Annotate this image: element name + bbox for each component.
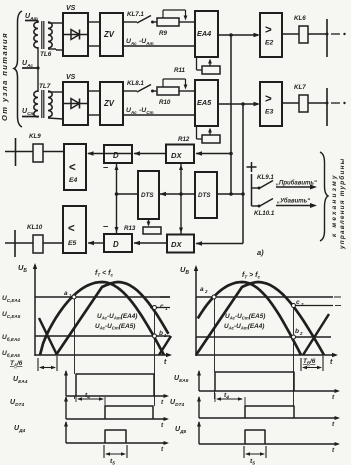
svg-text:TL6: TL6 bbox=[40, 51, 52, 58]
svg-text:KL10.1: KL10.1 bbox=[254, 210, 275, 217]
svg-text:KL10: KL10 bbox=[27, 224, 43, 231]
svg-text:UEA5: UEA5 bbox=[174, 375, 189, 384]
svg-text:KL9.1: KL9.1 bbox=[257, 174, 274, 181]
svg-text:DX: DX bbox=[171, 240, 182, 249]
svg-text:KL7.1: KL7.1 bbox=[127, 11, 144, 18]
svg-text:a: a bbox=[64, 290, 68, 297]
svg-text:t: t bbox=[332, 394, 335, 401]
svg-text:UАс: UАс bbox=[126, 38, 137, 46]
svg-text:к механизму: к механизму bbox=[331, 173, 338, 237]
svg-text:a: a bbox=[200, 286, 204, 293]
svg-text:UД4: UД4 bbox=[14, 425, 26, 434]
svg-text:R9: R9 bbox=[159, 30, 167, 37]
svg-text:UEA4: UEA4 bbox=[13, 376, 28, 385]
svg-text:VS: VS bbox=[66, 5, 76, 12]
svg-text:EA5: EA5 bbox=[197, 98, 212, 107]
svg-text:TВ/6: TВ/6 bbox=[303, 358, 316, 366]
svg-text:UАс-UСт(EA5): UАс-UСт(EA5) bbox=[95, 323, 135, 331]
svg-text:t5: t5 bbox=[110, 458, 115, 465]
svg-text:2: 2 bbox=[299, 331, 303, 336]
svg-text:E2: E2 bbox=[265, 40, 274, 47]
svg-text:KL8.1: KL8.1 bbox=[127, 80, 144, 87]
svg-text:2: 2 bbox=[300, 302, 304, 307]
svg-text:E4: E4 bbox=[69, 177, 78, 184]
svg-text:UБ: UБ bbox=[18, 263, 27, 274]
svg-text:fТ > fс: fТ > fс bbox=[242, 272, 260, 280]
svg-text:UDT4: UDT4 bbox=[170, 399, 184, 408]
svg-text:-UСт: -UСт bbox=[139, 107, 154, 115]
svg-text:ZV: ZV bbox=[103, 99, 115, 108]
svg-text:1: 1 bbox=[165, 306, 168, 311]
svg-text:UDT4: UDT4 bbox=[10, 399, 24, 408]
svg-text:c: c bbox=[160, 303, 164, 310]
svg-text:–: – bbox=[103, 162, 108, 173]
svg-text:fТ < fс: fТ < fс bbox=[95, 270, 113, 278]
svg-text:t: t bbox=[161, 399, 164, 406]
svg-text:а): а) bbox=[257, 248, 264, 257]
svg-text:>: > bbox=[265, 25, 272, 37]
svg-text:t: t bbox=[330, 359, 333, 366]
svg-text:t: t bbox=[161, 446, 164, 453]
svg-text:D: D bbox=[113, 151, 119, 160]
svg-text:DTS: DTS bbox=[141, 192, 154, 199]
svg-text:R10: R10 bbox=[159, 99, 171, 106]
svg-text:E3: E3 bbox=[265, 109, 274, 116]
svg-text:KL9: KL9 bbox=[29, 133, 41, 140]
svg-text:UАс-UАт(EA4): UАс-UАт(EA4) bbox=[97, 313, 137, 321]
svg-text:R11: R11 bbox=[174, 67, 185, 74]
svg-text:TА/6: TА/6 bbox=[10, 360, 23, 368]
svg-text:„Прибавить“: „Прибавить“ bbox=[275, 180, 317, 187]
svg-text:t5: t5 bbox=[250, 458, 255, 465]
svg-text:t: t bbox=[332, 447, 335, 454]
svg-text:-UАт: -UАт bbox=[139, 38, 154, 46]
svg-text:Uб,EA4: Uб,EA4 bbox=[2, 334, 20, 342]
svg-text:>: > bbox=[265, 94, 272, 106]
svg-text:Uб,EA5: Uб,EA5 bbox=[2, 350, 20, 358]
svg-text:E5: E5 bbox=[68, 240, 77, 247]
svg-text:KL7: KL7 bbox=[294, 84, 306, 91]
svg-text:управления турбины: управления турбины bbox=[338, 158, 346, 250]
svg-text:UC,EA5: UC,EA5 bbox=[2, 311, 21, 319]
svg-text:t: t bbox=[164, 359, 167, 366]
svg-text:UАс: UАс bbox=[126, 107, 137, 115]
svg-text:2: 2 bbox=[204, 289, 208, 294]
svg-text:R13: R13 bbox=[124, 225, 136, 232]
svg-text:t: t bbox=[161, 422, 164, 429]
svg-text:b: b bbox=[159, 330, 163, 337]
svg-text:ZV: ZV bbox=[103, 30, 115, 39]
svg-text:UC,EA4: UC,EA4 bbox=[2, 295, 21, 303]
svg-text:DX: DX bbox=[171, 151, 182, 160]
svg-text:UД5: UД5 bbox=[175, 426, 187, 435]
svg-text:D: D bbox=[113, 240, 119, 249]
svg-text:R12: R12 bbox=[178, 136, 190, 143]
svg-text:UВ: UВ bbox=[180, 265, 189, 276]
svg-text:VS: VS bbox=[66, 74, 76, 81]
svg-text:TL7: TL7 bbox=[39, 83, 51, 90]
svg-text:–: – bbox=[103, 221, 108, 232]
svg-text:KL6: KL6 bbox=[294, 15, 306, 22]
svg-text:UАс-UСт(EA5): UАс-UСт(EA5) bbox=[225, 313, 265, 321]
svg-text:t: t bbox=[332, 421, 335, 428]
svg-text:EA4: EA4 bbox=[197, 29, 211, 38]
svg-text:<: < bbox=[69, 162, 76, 174]
svg-text:DTS: DTS bbox=[198, 192, 211, 199]
svg-text:UАс-UАт(EA4): UАс-UАт(EA4) bbox=[224, 323, 264, 331]
svg-text:От узла питания: От узла питания bbox=[0, 32, 9, 121]
svg-text:<: < bbox=[68, 223, 75, 235]
svg-text:c: c bbox=[296, 299, 300, 306]
svg-text:b: b bbox=[295, 328, 299, 335]
svg-text:„Убавить“: „Убавить“ bbox=[276, 198, 310, 205]
